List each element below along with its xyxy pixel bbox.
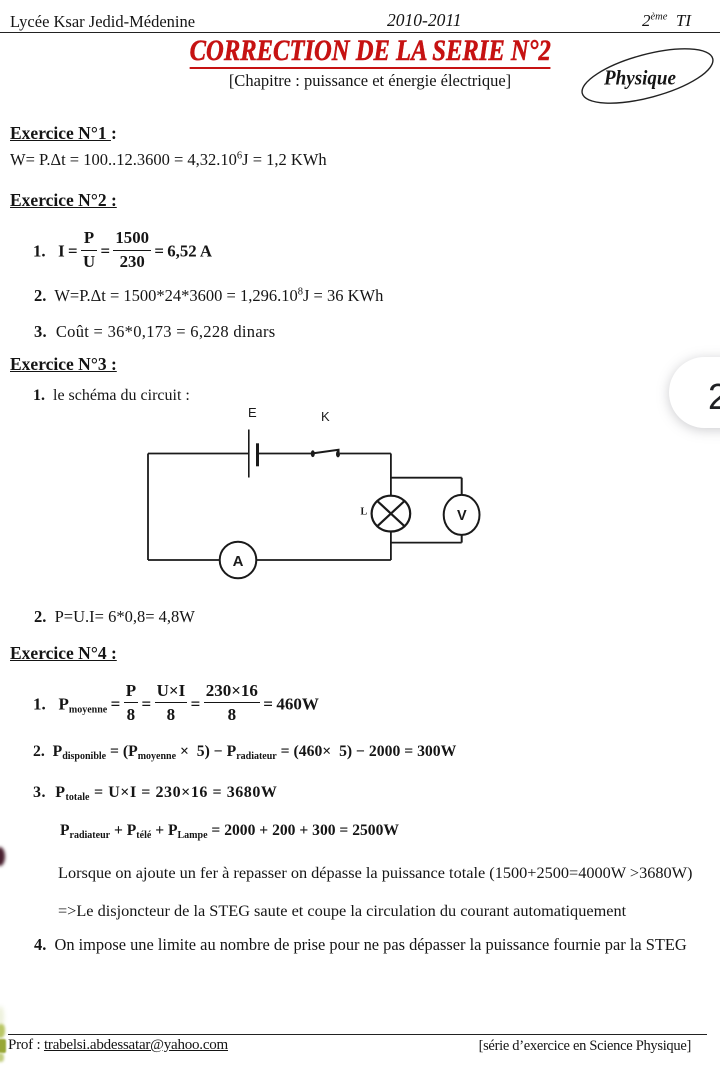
footer rule (8, 1034, 707, 1035)
Exercice 1 heading (10, 123, 117, 144)
Ex2 line 2 (34, 286, 383, 306)
ammeter A circle (220, 542, 257, 579)
Ex1 answer line (10, 150, 327, 170)
circuit schematic svg (138, 402, 488, 587)
svg-text:K: K (321, 409, 330, 424)
battery E long plate (248, 430, 250, 478)
Ex4 item 4 (34, 935, 687, 955)
Ex4 line 2 (33, 743, 456, 762)
Ex4 paragraph 1 (58, 863, 692, 883)
Ex4 eq 1 with fractions (33, 682, 319, 723)
Ex3 item 2 (34, 607, 195, 627)
wire voltmeter bottom lead (461, 535, 463, 543)
wire ammeter to bottom-right corner (256, 559, 391, 561)
header right: grade (642, 11, 691, 31)
wire right side lower (390, 531, 392, 560)
Exercice 3 heading (10, 354, 117, 375)
subtitle (10, 71, 720, 91)
scan artifact: green leaf bottom left (0, 1006, 4, 1028)
Ex4 paragraph 2 (58, 901, 626, 921)
main title (10, 34, 720, 69)
svg-text:Physique: Physique (603, 65, 676, 89)
switch K lever (314, 450, 339, 453)
wire bottom left to ammeter (148, 559, 220, 561)
lamp L circle (372, 496, 411, 532)
scan artifact: maroon dot left edge (0, 847, 5, 866)
wire right side upper (390, 454, 392, 496)
Ex3 item 1 label (33, 387, 190, 405)
wire left side (147, 454, 149, 561)
svg-text:L: L (361, 507, 368, 518)
wire voltmeter top lead (461, 478, 463, 495)
voltmeter V circle (444, 495, 480, 535)
wire switch to top-right corner (340, 453, 391, 455)
header rule (0, 32, 720, 33)
physique ellipse stamp (570, 42, 720, 110)
Ex2 line 3 (34, 322, 275, 342)
switch K contact dot left (311, 450, 315, 457)
page number bubble overlay (669, 357, 720, 428)
Exercice 4 heading (10, 643, 117, 664)
wire battery to switch (258, 453, 312, 455)
wire parallel branch bottom (391, 542, 462, 544)
svg-text:V: V (457, 508, 467, 524)
Ex4 line 4 (60, 822, 399, 841)
Exercice 2 heading (10, 190, 117, 211)
lamp L cross (377, 501, 404, 526)
wire top-left segment (148, 453, 248, 455)
Ex2 eq 1 with fractions (33, 230, 212, 271)
header center: year (387, 10, 462, 31)
header left: school name (10, 12, 195, 32)
footer right (479, 1038, 691, 1055)
svg-text:E: E (248, 405, 257, 420)
wire parallel branch top (391, 477, 462, 479)
battery E short thick plate (256, 443, 259, 466)
Ex4 line 3 (33, 784, 277, 803)
svg-text:A: A (233, 553, 244, 570)
switch K contact dot right (336, 451, 340, 458)
footer left (8, 1037, 228, 1054)
